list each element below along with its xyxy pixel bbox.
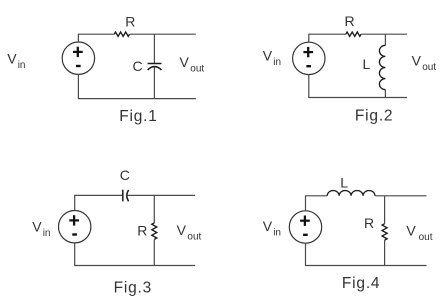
wire from L to bottom rail (Fig.2) [384,90,386,98]
resistor R (Fig.4) [382,224,387,240]
voltage source V3 (Fig.3) [58,211,90,243]
label Vout (Fig.2) [412,52,437,73]
wire node branch down to C (Fig.1) [153,34,155,63]
svg-text:V: V [406,223,416,239]
svg-text:out: out [187,231,201,242]
label Vout (Fig.4) [406,223,432,243]
wire from R to bottom rail (Fig.4) [384,240,386,265]
svg-text:out: out [422,62,436,73]
label Vin (Fig.2) [263,48,281,68]
svg-text:V: V [180,54,190,70]
svg-text:L: L [363,56,371,72]
svg-text:Fig.2: Fig.2 [355,107,393,124]
resistor R (Fig.2) [346,32,361,36]
wire top-right from R to output (Fig.1) [130,33,196,35]
svg-text:R: R [137,222,147,238]
voltage source V4 (Fig.4) [289,211,321,243]
wire from R to bottom rail (Fig.3) [153,239,155,265]
resistor R (Fig.1) [114,32,129,36]
wire top-left from V1 to R (Fig.1) [78,34,114,42]
wire from C to bottom rail (Fig.1) [153,67,155,99]
wire node stub down to R (Fig.3) [153,195,155,223]
inductor L (Fig.4) [327,190,375,195]
svg-text:in: in [273,57,281,68]
caption Fig.2 [355,107,393,124]
label Vin (Fig.4) [263,218,281,239]
label R (Fig.4) [364,215,374,231]
label Vin (Fig.3) [32,219,50,240]
svg-text:in: in [273,228,281,239]
wire top-right from R to output (Fig.2) [361,33,407,35]
label C (Fig.3) [120,167,130,183]
label Vout (Fig.3) [177,222,202,242]
svg-text:V: V [263,218,273,234]
wire top-right from L to output (Fig.4) [375,195,427,197]
capacitor C (Fig.3) [123,190,129,202]
caption Fig.1 [119,108,157,125]
wire top-left from V3 to C (Fig.3) [75,195,123,211]
svg-text:in: in [43,228,51,239]
svg-text:R: R [345,13,355,29]
voltage source V2 (Fig.2) [293,42,325,74]
wire node stub down to R (Fig.4) [384,196,386,224]
label L (Fig.4) [340,174,348,190]
svg-text:in: in [18,60,26,71]
voltage source V1 (Fig.1) [62,42,94,74]
svg-text:V: V [263,48,273,64]
wire top-left from V2 to R (Fig.2) [309,34,346,42]
label R (Fig.1) [125,14,135,30]
svg-text:V: V [412,52,422,68]
svg-text:out: out [190,64,204,75]
wire node stub down to L (Fig.2) [384,34,386,45]
svg-text:Fig.3: Fig.3 [114,279,152,296]
inductor L (Fig.2) [379,45,385,89]
wire bottom rail (Fig.3) [75,243,195,266]
wire bottom rail (Fig.4) [306,243,427,265]
svg-text:Fig.1: Fig.1 [119,108,157,125]
svg-text:R: R [364,215,374,231]
caption Fig.4 [342,275,380,292]
svg-text:C: C [133,58,143,74]
label Vout (Fig.1) [180,54,205,74]
svg-text:V: V [7,50,17,66]
wire bottom rail (Fig.2) [309,75,407,98]
resistor R (Fig.3) [152,223,157,239]
svg-text:V: V [32,219,42,235]
svg-text:V: V [177,222,187,238]
label Vin (Fig.1) [7,50,25,71]
svg-text:L: L [340,174,348,190]
label R (Fig.3) [137,222,147,238]
svg-text:R: R [125,14,135,30]
label C (Fig.1) [133,58,143,74]
capacitor C (Fig.1) [148,64,162,71]
svg-text:C: C [120,167,130,183]
wire top-right from C to output (Fig.3) [127,194,196,196]
caption Fig.3 [114,279,152,296]
wire top-left from V4 to L (Fig.4) [306,196,328,211]
svg-text:out: out [419,232,433,243]
label L (Fig.2) [363,56,371,72]
svg-text:Fig.4: Fig.4 [342,275,380,292]
label R (Fig.2) [345,13,355,29]
wire bottom rail (Fig.1) [78,74,195,98]
